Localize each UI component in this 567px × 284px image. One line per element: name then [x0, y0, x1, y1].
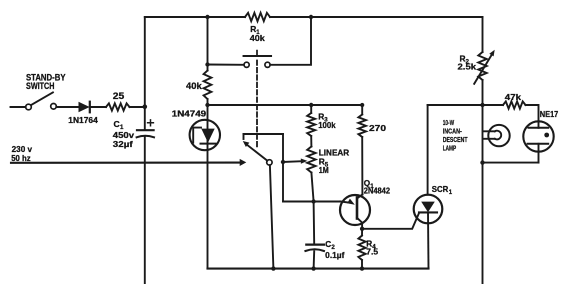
zener cathode bar [201, 143, 216, 145]
wire pivot return to bottom rail [270, 165, 274, 268]
push switch actuator tick [256, 51, 258, 56]
dashed gang linkage [256, 61, 258, 148]
node junction pivot return / bottom rail [271, 266, 275, 270]
zener triangle [201, 129, 214, 143]
capacitor C2 bottom plate [305, 249, 324, 251]
push switch right contact [265, 62, 270, 67]
svg-text:1M: 1M [319, 165, 329, 175]
capacitor C2 top wire [313, 202, 316, 245]
zener diode 1N4749 circle [190, 120, 220, 150]
wire left vertical (C1 branch, above plates) [144, 17, 146, 129]
resistor R3 100k [307, 113, 315, 136]
wire R4 bottom stub [361, 260, 363, 269]
node junction emitter / C2 [311, 199, 315, 203]
svg-text:0.1µf: 0.1µf [325, 251, 344, 260]
R2 arrow diagonal [474, 55, 491, 83]
node junction 47k tap [480, 103, 484, 107]
incandescent lamp filament loop [495, 131, 501, 140]
resistor 40k (vertical) [204, 71, 212, 100]
Q1 base bar [356, 198, 359, 219]
capacitor C1 bottom plate [137, 136, 154, 138]
wire top rail left segment [145, 16, 245, 18]
svg-text:LAMP: LAMP [443, 144, 457, 153]
svg-text:2N4842: 2N4842 [364, 186, 391, 195]
wire 40k branch vertical from top rail [207, 17, 209, 65]
svg-text:7.5: 7.5 [366, 248, 378, 257]
svg-text:C: C [325, 240, 331, 249]
stand-by switch left contact [26, 104, 32, 110]
NE17 bottom wire [538, 144, 540, 163]
wire 40k top stub [207, 65, 209, 71]
potentiometer R5 1M [307, 147, 315, 173]
push switch actuator bar [244, 55, 271, 57]
plus sign of C1 [148, 120, 154, 126]
node junction at push switch tap [205, 62, 209, 66]
diode 1N1764 [79, 102, 90, 113]
wire switch to diode [56, 106, 78, 108]
wire R5 bottom to emitter node [311, 173, 313, 202]
svg-text:C: C [114, 119, 120, 129]
wire emitter line [283, 201, 341, 203]
arrowhead fixed contact of line switch [240, 159, 247, 166]
svg-text:25: 25 [113, 91, 125, 101]
svg-text:SCR: SCR [432, 184, 449, 194]
node junction NE17 return [480, 160, 484, 164]
SCR1 anode wire / lamp box left edge [427, 105, 429, 195]
wire NE17 return [483, 162, 539, 164]
wire R4 top stub [361, 229, 363, 236]
node junction R4 / bottom rail [360, 266, 364, 270]
wire 230v line [11, 162, 240, 164]
wire R3 top stub [310, 105, 312, 113]
incandescent lamp lower lead [483, 138, 495, 140]
rheostat R2 2.5k [478, 52, 486, 80]
svg-text:1: 1 [449, 190, 453, 196]
svg-text:270: 270 [369, 123, 386, 133]
arrowhead R5 wiper [301, 159, 308, 164]
wire 47k to NE17 [526, 105, 539, 128]
wire right contact to vertical [270, 17, 311, 65]
R2 arrowhead [489, 50, 494, 57]
SCR1 cathode wire to bottom rail [427, 212, 430, 268]
stand-by switch right contact [51, 104, 57, 110]
Q1 emitter lead [341, 202, 349, 203]
wire R3 rail [208, 104, 363, 106]
svg-text:47k: 47k [505, 92, 522, 102]
incandescent lamp envelope circle [488, 125, 509, 146]
node junction 270 / rail corner [360, 103, 364, 107]
push switch left contact [244, 62, 249, 67]
svg-text:2: 2 [331, 244, 335, 251]
Q1 base-one lead [357, 218, 362, 229]
svg-text:SWITCH: SWITCH [26, 81, 55, 91]
resistor R4 7.5 [358, 236, 365, 261]
svg-text:32µf: 32µf [113, 139, 133, 149]
NE17 upper electrode [529, 127, 549, 129]
svg-text:1N4749: 1N4749 [172, 108, 207, 118]
incandescent lamp upper lead [483, 130, 495, 132]
node junction top-right of R1 branch [309, 15, 313, 19]
stand-by switch blade (open) [31, 92, 53, 105]
capacitor C2 bottom wire [313, 251, 316, 268]
node junction Q1 base-one / R4 / gate [360, 227, 364, 231]
svg-text:40k: 40k [186, 81, 203, 91]
wire 270 to Q1 base-two [361, 137, 363, 195]
capacitor C2 top plate [306, 244, 324, 246]
upper contact stub [243, 134, 245, 139]
wire lamp box top / 47k line [428, 104, 503, 106]
Q1 base-two lead [357, 195, 362, 199]
wire R5 wiper [283, 160, 302, 163]
SCR1 triangle [421, 202, 435, 213]
line switch pivot contact [267, 160, 272, 165]
wire 25-ohm to C1 node [130, 106, 145, 108]
transistor Q1 2N4842 circle [340, 195, 370, 225]
NE17 lower electrode [528, 143, 549, 145]
resistor R1 40k (top rail) [245, 13, 270, 21]
wire stand-by switch left stub [11, 106, 26, 108]
wire to push switch left contact [208, 64, 244, 66]
node junction 40k / R3 rail [205, 103, 209, 107]
SCR1 cathode bar [419, 211, 437, 213]
wire upper-contact vertical to emitter line [282, 134, 284, 202]
wire upper throw contact of line switch [244, 133, 284, 135]
svg-text:100k: 100k [318, 120, 336, 130]
neon lamp NE17 circle [523, 121, 553, 151]
node junction wiper tap [281, 160, 285, 164]
resistor 25 [106, 103, 130, 110]
wire right vertical above R2 [482, 17, 484, 52]
wire right vertical below R2 [482, 80, 484, 284]
resistor 47k [503, 101, 526, 108]
wire left vertical (C1 branch, below plates) [144, 137, 146, 284]
arrowhead blade tip [243, 141, 250, 147]
node junction R3 tap [309, 103, 313, 107]
line switch blade [247, 145, 267, 161]
resistor 270 [358, 115, 366, 138]
node junction at 25-ohm / C1 [143, 104, 148, 109]
wire 40k bottom stub [207, 99, 209, 105]
svg-text:1N1764: 1N1764 [68, 115, 98, 125]
wire bottom rail [208, 268, 429, 270]
wire 270 top stub [361, 105, 363, 115]
zener gamma mark [193, 128, 201, 143]
capacitor C1 top plate [137, 129, 154, 131]
svg-text:40k: 40k [250, 33, 265, 43]
wire top rail right segment [270, 16, 483, 18]
node junction top-left of R1 branch [205, 15, 209, 19]
zener wire through [207, 105, 209, 269]
wire gate line [362, 213, 419, 229]
Q1 emitter arrow [347, 199, 355, 205]
svg-text:DESCENT: DESCENT [443, 135, 468, 144]
NE17 gas dot [544, 133, 549, 138]
thyristor SCR1 circle [414, 195, 443, 224]
node junction C2 / bottom rail [311, 266, 315, 270]
svg-text:50 hz: 50 hz [11, 153, 31, 163]
svg-text:2.5k: 2.5k [458, 62, 477, 72]
wire diode to 25-ohm [90, 106, 106, 108]
wire R3 to R5 [310, 136, 312, 147]
svg-text:NE17: NE17 [540, 110, 559, 119]
